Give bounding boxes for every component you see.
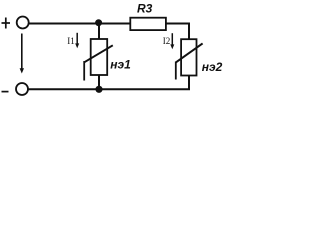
node junction bottom bbox=[95, 86, 102, 93]
minus sign bbox=[2, 91, 9, 93]
resistor R3 bbox=[130, 18, 166, 30]
wire top right with corner down bbox=[165, 24, 189, 41]
nonlinear element NE2 tail bbox=[175, 62, 177, 80]
wire lead top of element 1 bbox=[98, 23, 100, 40]
nonlinear element NE1 tail bbox=[83, 61, 85, 81]
svg-text:I2: I2 bbox=[163, 36, 171, 46]
nonlinear element NE1 body bbox=[91, 39, 108, 75]
svg-text:I1: I1 bbox=[67, 36, 75, 46]
terminal circle + bbox=[17, 17, 29, 29]
nonlinear element NE1 diagonal bbox=[84, 45, 113, 62]
svg-text:нэ2: нэ2 bbox=[202, 60, 223, 74]
wire bottom with corner up bbox=[28, 75, 189, 89]
nonlinear element NE2 body bbox=[181, 39, 196, 75]
terminal circle - bbox=[16, 83, 28, 95]
current arrow I1 bbox=[75, 33, 79, 48]
wire top left bbox=[29, 23, 132, 25]
source direction arrow bbox=[20, 34, 24, 74]
plus sign bbox=[2, 18, 11, 29]
nonlinear element NE2 diagonal bbox=[176, 43, 203, 62]
node junction top bbox=[95, 19, 102, 26]
svg-text:нэ1: нэ1 bbox=[110, 58, 131, 72]
svg-text:R3: R3 bbox=[137, 2, 153, 16]
wire lead bottom of element 1 bbox=[98, 75, 100, 90]
current arrow I2 bbox=[170, 33, 174, 49]
